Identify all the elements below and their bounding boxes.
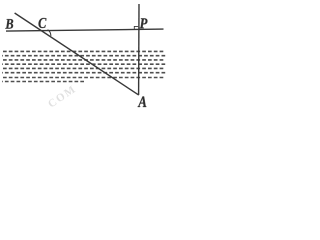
- label B: [5, 19, 13, 29]
- watermark: [47, 85, 75, 107]
- normal line P-A: [138, 4, 140, 95]
- ray B-C-A: [15, 13, 139, 95]
- right-angle mark at P: [134, 26, 138, 29]
- water hatching (rows of short dashes): [2, 51, 166, 81]
- hatch rows: [3, 50, 165, 52]
- angle arc at C: [48, 30, 51, 36]
- label A: [138, 96, 147, 107]
- label C: [39, 18, 47, 28]
- surface line: [6, 29, 164, 31]
- label P: [140, 18, 148, 28]
